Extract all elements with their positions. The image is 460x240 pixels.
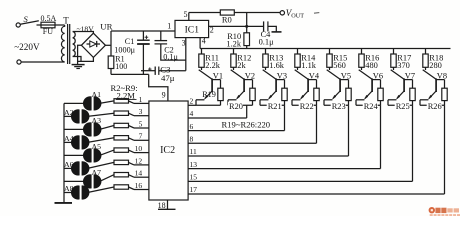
svg-text:2.2k: 2.2k (205, 61, 220, 70)
svg-text:9: 9 (162, 91, 166, 100)
svg-text:4: 4 (190, 109, 194, 118)
wire +V horizontal to IC1 (111, 30, 175, 32)
wire R0 to Vout (234, 12, 280, 14)
resistor R2 2.2M (114, 99, 129, 103)
pin 5 (188, 13, 190, 21)
svg-text:4: 4 (202, 37, 206, 46)
op-amp IC2 (149, 101, 188, 200)
wire electrode row A7 (64, 180, 87, 182)
wire electrode row A2 (64, 115, 75, 117)
wire to IC2 pin V5 (348, 105, 350, 156)
svg-text:0.1μ: 0.1μ (163, 53, 178, 62)
resistor R11 2.2k (201, 49, 203, 55)
wire AC bottom (21, 61, 65, 63)
wire to IC2 pin 9 (149, 74, 168, 101)
svg-text:12: 12 (135, 156, 143, 165)
resistor R12 2k (233, 49, 235, 55)
svg-text:47μ: 47μ (161, 73, 175, 83)
svg-text:0.1μ: 0.1μ (259, 37, 274, 46)
svg-text:R19: R19 (202, 90, 216, 99)
terminal Vout (280, 11, 284, 15)
svg-text:V6: V6 (373, 72, 383, 81)
switch S (20, 21, 39, 24)
svg-text:V2: V2 (245, 72, 255, 81)
svg-text:R24: R24 (364, 102, 379, 111)
wire electrode row A5 (64, 154, 87, 156)
wire cell bottom R20 (228, 104, 253, 106)
svg-text:V1: V1 (213, 72, 223, 81)
resistor R24 220 (380, 80, 382, 89)
wire to IC2 pin 3 (129, 113, 135, 116)
wire electrode row A3 (64, 128, 87, 130)
electrode A7 (83, 174, 92, 188)
wire cell bottom R24 (356, 104, 381, 106)
wire electrode row A6 (64, 167, 75, 169)
svg-text:UR: UR (100, 22, 112, 32)
fuse FU 0.5A (37, 24, 42, 26)
svg-text:14: 14 (135, 169, 143, 178)
svg-text:T: T (63, 16, 69, 26)
transformer core (67, 24, 69, 64)
resistor R14 1.1k (297, 49, 299, 55)
wire to IC2 pin V4 (316, 105, 318, 143)
wire ground bus (111, 73, 149, 75)
resistor R17 370 (393, 49, 395, 55)
electrode A5 (83, 148, 92, 162)
svg-text:3: 3 (139, 107, 143, 116)
wire to IC2 pin 7 (129, 138, 135, 141)
resistor R4 2.2M (114, 123, 129, 127)
resistor R6 2.2M (114, 148, 129, 152)
svg-text:5: 5 (139, 119, 143, 128)
svg-text:V4: V4 (309, 72, 320, 81)
wire cell bottom R19 (196, 104, 221, 106)
svg-text:R22: R22 (300, 102, 314, 111)
svg-text:V7: V7 (405, 72, 415, 81)
svg-text:10: 10 (135, 144, 143, 153)
wire to IC2 pin V7 (412, 105, 414, 181)
svg-text:~18V: ~18V (77, 25, 95, 34)
resistor R13 1.6k (265, 49, 267, 55)
wire cell bottom R21 (260, 104, 285, 106)
stray mark (314, 12, 319, 15)
electrode A6 (71, 161, 80, 175)
bridge diode (87, 43, 90, 45)
transistor V6 (359, 70, 372, 79)
svg-text:11: 11 (190, 147, 197, 156)
wire electrode row A8 (64, 192, 75, 194)
resistor R26 220 (444, 80, 446, 89)
wire to IC2 pin 5 (129, 126, 135, 129)
watermark logo (429, 207, 435, 213)
resistor R5 2.2M (114, 136, 129, 140)
svg-text:~220V: ~220V (14, 42, 40, 52)
wire cell bottom R25 (388, 104, 413, 106)
capacitor C2 0.1u (160, 31, 162, 41)
svg-text:R19~R26:220: R19~R26:220 (222, 120, 271, 130)
wire to IC2 pin 1 (129, 101, 135, 104)
ground rail electrodes (63, 103, 65, 202)
svg-text:A1: A1 (92, 90, 102, 99)
wire to IC2 pin V2 (246, 105, 248, 118)
wire cell bottom R23 (324, 104, 349, 106)
wire bridge output (105, 44, 111, 46)
wire to IC2 pin V3 (284, 105, 286, 130)
resistor R9 2.2M (114, 185, 129, 189)
wire emitter V2 (228, 99, 236, 101)
electrode A3 (83, 122, 92, 136)
pin 18 (167, 200, 169, 209)
svg-text:2k: 2k (237, 61, 246, 70)
svg-text:R21: R21 (268, 102, 282, 111)
resistor R20 220 (252, 80, 254, 89)
svg-text:1: 1 (139, 95, 143, 104)
pin 4 (199, 38, 201, 49)
svg-text:A4: A4 (64, 134, 74, 143)
resistor R8 2.2M (114, 173, 129, 177)
wire to IC2 pin V8 (444, 105, 446, 194)
electrode A1 (83, 96, 92, 110)
svg-text:R20: R20 (229, 102, 243, 111)
svg-text:R25: R25 (396, 102, 410, 111)
transistor V1 (199, 70, 212, 79)
resistor R16 480 (361, 49, 363, 55)
resistor R15 560 (329, 49, 331, 55)
electrode A8 (71, 185, 80, 199)
svg-text:IC1: IC1 (185, 25, 200, 36)
wire pin5 to R0 (189, 12, 221, 14)
wire electrode row A4 (64, 141, 75, 143)
wire emitter V7 (388, 99, 396, 101)
svg-text:A6: A6 (64, 160, 74, 169)
svg-text:V8: V8 (437, 72, 447, 81)
svg-text:1: 1 (167, 22, 171, 31)
svg-text:V5: V5 (341, 72, 351, 81)
svg-text:100: 100 (115, 62, 127, 71)
resistor R18 280 (425, 49, 427, 55)
wire +V vertical (110, 31, 112, 56)
wire cell bottom R22 (292, 104, 317, 106)
svg-text:8: 8 (190, 135, 194, 144)
svg-text:370: 370 (397, 61, 410, 70)
transistor V4 (295, 70, 308, 79)
svg-text:15: 15 (190, 173, 198, 182)
svg-text:1.1k: 1.1k (301, 61, 316, 70)
svg-text:18: 18 (158, 201, 166, 210)
resistor R19 220 (220, 80, 222, 89)
svg-text:13: 13 (190, 160, 198, 169)
wire to IC2 pin 12 (129, 162, 135, 165)
svg-text:6: 6 (190, 122, 194, 131)
svg-text:2: 2 (210, 26, 214, 35)
svg-text:IC2: IC2 (160, 145, 175, 156)
terminal top ~220V (16, 23, 20, 27)
wire to IC2 pin 10 (129, 150, 135, 153)
svg-text:16: 16 (135, 181, 143, 190)
svg-text:560: 560 (333, 61, 346, 70)
resistor R10 1.2k (246, 26, 248, 32)
transistor V7 (391, 70, 404, 79)
svg-text:1.2k: 1.2k (226, 39, 241, 48)
pin 3 (185, 38, 187, 71)
wire emitter V1 (196, 99, 204, 101)
svg-text:1.6k: 1.6k (269, 61, 284, 70)
svg-text:V3: V3 (277, 72, 287, 81)
capacitor C1 1000u (142, 31, 144, 40)
svg-text:1000μ: 1000μ (114, 45, 135, 54)
wire bridge bottom vertex (78, 57, 94, 61)
svg-text:A8: A8 (64, 184, 74, 193)
transistor V5 (327, 70, 340, 79)
resistor R1 100 (108, 56, 114, 69)
electrode A2 (71, 109, 80, 123)
ground (electrodes) (55, 202, 73, 204)
bridge rectifier UR (81, 33, 105, 57)
op-amp IC1 (175, 20, 209, 37)
resistor R25 220 (412, 80, 414, 89)
wire junction vertical (246, 13, 248, 27)
wire collector rail (200, 48, 450, 50)
wire emitter V5 (324, 99, 332, 101)
wire emitter V8 (420, 99, 428, 101)
resistor R21 220 (284, 80, 286, 89)
wire secondary bottom (73, 57, 81, 62)
resistor R0 (220, 10, 234, 15)
svg-text:R23: R23 (332, 102, 346, 111)
resistor R7 2.2M (114, 160, 129, 164)
pin 2 (209, 25, 264, 27)
wire electrode row A1 (64, 102, 87, 104)
svg-text:R0: R0 (222, 15, 232, 25)
resistor R23 220 (348, 80, 350, 89)
svg-text:7: 7 (139, 132, 143, 141)
ground (rectifier) (72, 64, 85, 66)
transformer T primary winding (61, 25, 64, 62)
wire emitter V6 (356, 99, 364, 101)
svg-text:A7: A7 (92, 168, 102, 177)
transistor V8 (423, 70, 436, 79)
svg-text:480: 480 (365, 61, 378, 70)
wire to IC2 pin V6 (380, 105, 382, 168)
svg-text:A5: A5 (92, 142, 102, 151)
svg-text:A2: A2 (64, 108, 74, 117)
svg-text:0.5A: 0.5A (41, 14, 57, 23)
svg-text:5: 5 (184, 10, 188, 19)
svg-text:2: 2 (190, 97, 194, 106)
node junction (245, 25, 248, 28)
svg-text:R26: R26 (428, 102, 442, 111)
terminal bottom ~220V (17, 60, 21, 64)
transformer secondary winding (73, 32, 76, 57)
svg-text:17: 17 (190, 185, 198, 194)
resistor R22 220 (316, 80, 318, 89)
wire to IC2 pin 16 (129, 187, 135, 190)
svg-text:FU: FU (43, 27, 53, 36)
wire bridge left vertex to ground (78, 45, 82, 64)
transistor V3 (263, 70, 276, 79)
wire secondary top to bridge (73, 32, 94, 34)
wire emitter V4 (292, 99, 300, 101)
wire IC2 pin2 to V1 (188, 104, 196, 106)
svg-text:3: 3 (182, 38, 186, 47)
electrode A4 (71, 135, 80, 149)
resistor R3 2.2M (114, 111, 129, 115)
transistor V2 (231, 70, 244, 79)
svg-text:280: 280 (429, 61, 442, 70)
wire cell bottom R26 (420, 104, 445, 106)
svg-text:A3: A3 (92, 116, 102, 125)
wire emitter V3 (260, 99, 268, 101)
capacitor C3 47u (141, 70, 155, 72)
wire to IC2 pin 14 (129, 175, 135, 178)
capacitor C4 0.1u (263, 21, 265, 31)
